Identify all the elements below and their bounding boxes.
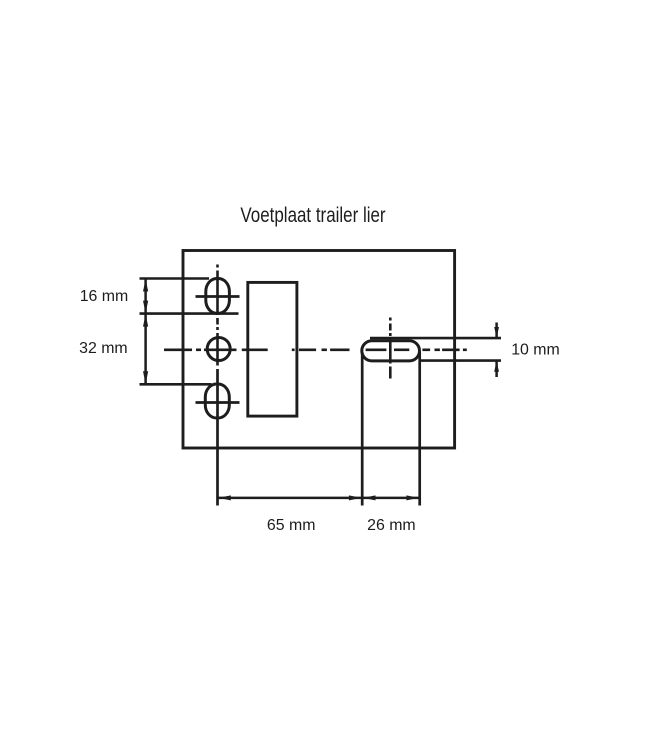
- obround vertical centerline: [389, 318, 392, 379]
- label 32 mm: [79, 340, 128, 357]
- title: Voetplaat trailer lier: [240, 204, 386, 227]
- left extension line bottom of top slot: [140, 312, 239, 315]
- dimension line 10 mm: [494, 323, 499, 378]
- top slot hole: [206, 279, 230, 314]
- crosshair top hole: [196, 295, 240, 298]
- label 26 mm: [367, 517, 416, 534]
- dimension line 26 mm: [362, 495, 420, 500]
- label 65 mm: [267, 517, 316, 534]
- vertical centerline through left holes: [216, 265, 219, 366]
- bottom slot hole: [205, 384, 229, 418]
- inner rectangle (winch slot): [248, 282, 297, 416]
- right extension line bottom of obround: [420, 359, 502, 362]
- svg-text:26 mm: 26 mm: [367, 517, 416, 534]
- extension line obround right edge down: [418, 352, 421, 506]
- label 10 mm: [511, 342, 560, 359]
- svg-text:16 mm: 16 mm: [80, 288, 129, 305]
- obround slot right: [362, 341, 420, 361]
- middle hole: [207, 338, 230, 361]
- dimension line 16 mm: [143, 279, 148, 314]
- left extension line top of bottom slot: [140, 383, 212, 386]
- dimension line 32 mm: [143, 314, 148, 385]
- svg-text:65 mm: 65 mm: [267, 517, 316, 534]
- svg-text:32 mm: 32 mm: [79, 340, 128, 357]
- svg-text:Voetplaat trailer lier: Voetplaat trailer lier: [240, 204, 386, 227]
- extension line from holes centerline down to 65mm dimension: [216, 369, 219, 506]
- horizontal main centerline: [164, 348, 467, 351]
- label 16 mm: [80, 288, 129, 305]
- extension line obround left edge down: [361, 352, 364, 506]
- right extension line top of obround: [370, 337, 501, 340]
- crosshair bottom hole: [196, 401, 240, 404]
- svg-text:10 mm: 10 mm: [511, 342, 560, 359]
- left extension line top of slot: [140, 277, 210, 280]
- plate outline: [183, 251, 455, 449]
- dimension line 65 mm: [218, 495, 363, 500]
